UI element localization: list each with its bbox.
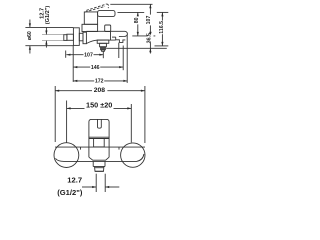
- shower outlet stub tier2: [100, 43, 107, 47]
- wire supply pipe dashed bottom: [42, 40, 64, 42]
- arrowheads 12.7 front: [92, 186, 96, 188]
- label 36.5: [148, 34, 154, 42]
- dim 146 bottom: [72, 45, 74, 82]
- label 146: [90, 64, 100, 70]
- dim 107 bottom: [65, 51, 67, 58]
- arrowheads 146: [73, 66, 77, 68]
- dimension 80 line: [137, 12, 139, 36]
- dim 150: [66, 101, 68, 143]
- svg-text:150 ±20: 150 ±20: [86, 100, 112, 109]
- handle base neck: [94, 139, 105, 147]
- lever solid: [98, 11, 115, 17]
- svg-text:208: 208: [94, 87, 106, 94]
- front spout block: [93, 162, 105, 167]
- extension line mid bottom: [132, 35, 155, 37]
- arrowheads 208: [55, 90, 59, 92]
- spout beak: [86, 31, 127, 36]
- dimension 36.5 shafts: [149, 42, 151, 48]
- arrowheads dim 116.5: [161, 12, 163, 16]
- svg-text:146: 146: [91, 65, 100, 71]
- dimension 116.5 line: [161, 12, 163, 46]
- svg-text:(G1/2"): (G1/2"): [57, 188, 83, 197]
- front right escutcheon: [121, 143, 145, 167]
- arrowheads dim 36.5: [149, 32, 151, 36]
- wall escutcheon flange side: [73, 28, 79, 46]
- dimension o60 ext lines: [25, 26, 73, 28]
- arrowheads 172: [73, 80, 77, 82]
- bar notch right: [118, 147, 120, 150]
- svg-text:12.7: 12.7: [67, 175, 82, 184]
- arrowheads 150: [67, 107, 71, 109]
- svg-text:107: 107: [146, 16, 152, 25]
- extension line spout bottom: [106, 47, 167, 49]
- arrowheads 12.7 side: [45, 31, 47, 35]
- grip slot: [98, 119, 102, 128]
- svg-text:172: 172: [95, 79, 104, 85]
- body internal vertical: [110, 31, 112, 40]
- extension line lever top right: [118, 11, 145, 13]
- front left escutcheon: [54, 143, 79, 168]
- arrowheads o60: [29, 23, 31, 27]
- cartridge base: [82, 24, 98, 31]
- svg-text:107: 107: [84, 53, 93, 59]
- extension line lever tip top: [110, 3, 152, 5]
- svg-text:(G1/2"): (G1/2"): [45, 6, 51, 25]
- dimension 107v line: [149, 4, 151, 36]
- wall connection stub: [67, 34, 74, 40]
- shower outlet tip: [102, 50, 105, 52]
- spout under steps: [116, 37, 126, 42]
- mixer body side: [86, 40, 115, 43]
- front spout aerator: [95, 167, 104, 172]
- label 116.5: [160, 21, 166, 35]
- svg-text:36.5: 36.5: [147, 33, 153, 43]
- dim 208: [54, 86, 56, 142]
- arrowheads dim 107v: [149, 4, 151, 8]
- label 80: [135, 16, 141, 24]
- wire supply pipe dashed top: [42, 34, 64, 36]
- dim 12.7 front ext lines: [95, 174, 97, 192]
- front handle grip: [89, 119, 109, 137]
- shower outlet stub tier1: [97, 40, 109, 43]
- spout shoulder line: [112, 36, 116, 38]
- neck: [79, 33, 83, 41]
- extension line x118.8: [118, 43, 120, 58]
- front column shoulders: [89, 157, 109, 160]
- handle base: [89, 137, 109, 147]
- label 107 vertical: [147, 15, 153, 26]
- pipe nipple stub: [64, 35, 67, 41]
- front handle column sides: [89, 147, 109, 157]
- cartridge housing: [84, 12, 97, 24]
- label o60: [27, 30, 33, 42]
- arrowheads dim 80: [137, 12, 139, 16]
- shower outlet stub thread: [101, 47, 106, 50]
- dim 12.7 front line left: [82, 186, 96, 188]
- dim 12.7 front line right: [105, 186, 119, 188]
- label 172: [94, 78, 104, 84]
- dim 172 bottom: [126, 35, 128, 83]
- lever dashed raised: [86, 4, 107, 10]
- bar notch left: [80, 147, 82, 150]
- dimension o60 shafts: [29, 20, 31, 28]
- svg-text:116.5: 116.5: [159, 21, 165, 34]
- svg-text:80: 80: [134, 17, 140, 23]
- collar: [83, 32, 86, 44]
- label 107 bottom: [84, 52, 94, 58]
- label 208: [92, 86, 107, 94]
- arrowheads 107 bottom: [66, 54, 70, 56]
- dimension 12.7 side shafts: [45, 28, 47, 35]
- front body bar: [55, 146, 145, 148]
- svg-text:ø60: ø60: [27, 31, 33, 40]
- lever pivot block: [105, 25, 111, 32]
